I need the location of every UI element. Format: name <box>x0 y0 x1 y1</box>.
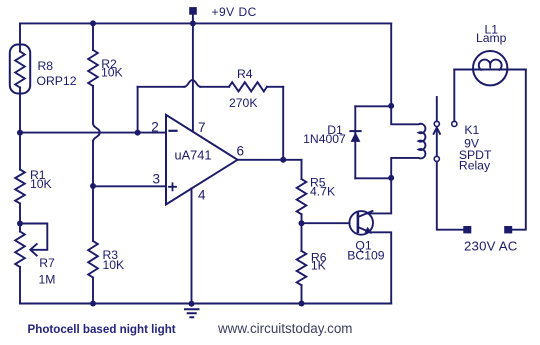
svg-text:Relay: Relay <box>459 158 491 172</box>
junction node 3 <box>17 130 23 136</box>
wire node to R1 <box>19 133 21 170</box>
wire Q1 collector <box>358 211 373 217</box>
svg-text:Photocell based night light: Photocell based night light <box>28 323 176 336</box>
svg-text:R7: R7 <box>39 256 55 270</box>
svg-text:Lamp: Lamp <box>476 31 507 45</box>
junction node 4 <box>135 130 141 136</box>
resistor R7 zigzag <box>15 232 25 268</box>
svg-text:10K: 10K <box>30 177 52 191</box>
op-amp minus sign <box>170 130 177 132</box>
resistor R5 zigzag <box>297 179 307 214</box>
wire diode branch top <box>355 105 391 107</box>
junction node 12 <box>388 103 394 109</box>
junction node 2 <box>190 20 196 26</box>
wire hop over pin2 wire <box>93 124 100 142</box>
ground symbol <box>185 309 199 317</box>
resistor R1 zigzag <box>15 170 25 204</box>
svg-text:BC109: BC109 <box>347 248 384 262</box>
svg-text:1N4007: 1N4007 <box>303 132 346 146</box>
op-amp plus sign <box>169 183 176 190</box>
resistor R4 zigzag <box>229 82 267 91</box>
wire NO contact up to lamp <box>453 70 455 122</box>
wire hop to R4 <box>200 86 229 88</box>
svg-text:3: 3 <box>152 172 160 187</box>
svg-text:4: 4 <box>198 188 206 203</box>
transistor Q1 base bar <box>357 214 360 232</box>
junction node 5 <box>90 183 96 189</box>
svg-text:4.7K: 4.7K <box>310 184 335 198</box>
wire lamp horizontal <box>454 69 526 71</box>
R7 wiper arrowhead <box>30 244 36 255</box>
lamp L1 circle <box>473 51 507 85</box>
diode D1 triangle <box>351 132 361 142</box>
svg-text:R8: R8 <box>38 59 54 73</box>
wire bottom ground rail <box>20 303 391 305</box>
wire R7 wiper tap <box>20 224 47 250</box>
wire R5 to base node <box>301 214 303 223</box>
junction node 8 <box>299 220 305 226</box>
wire rail into R8 top <box>19 23 21 51</box>
svg-text:230V AC: 230V AC <box>464 239 518 254</box>
wire Q1 collector lead <box>367 178 391 213</box>
wire feedback down to output node <box>282 87 284 160</box>
wire top +9V rail <box>20 22 391 24</box>
wire base node to Q1 <box>302 222 350 224</box>
switch contact circle bottom (common) <box>434 156 439 161</box>
wire rail down to relay top node <box>390 23 392 106</box>
svg-text:1M: 1M <box>39 272 56 286</box>
svg-text:10K: 10K <box>103 258 125 272</box>
wire switch NC stub <box>436 97 438 121</box>
wire op-amp pin 4 to ground <box>191 188 193 303</box>
diode D1 cathode bar <box>350 130 360 132</box>
terminal 230V AC right square <box>504 226 512 233</box>
transistor Q1 circle <box>349 211 373 235</box>
svg-text:+9V DC: +9V DC <box>212 5 257 19</box>
wire inverting input (pin 2) from divider <box>20 132 166 134</box>
wire lamp right down to AC <box>512 70 526 230</box>
wire base node to R6 <box>301 223 303 251</box>
junction node 10 <box>189 301 195 307</box>
svg-text:270K: 270K <box>229 96 257 110</box>
switch contact circle top <box>434 121 439 126</box>
svg-text:R4: R4 <box>237 67 253 81</box>
relay K1 coil <box>391 106 425 178</box>
svg-text:K1: K1 <box>464 123 479 137</box>
resistor R2 zigzag <box>88 50 98 86</box>
wire R3 to ground rail <box>92 278 94 304</box>
junction node 9 <box>90 301 96 307</box>
wire hop over +9V column <box>184 80 200 87</box>
wire hop to pin3 node <box>92 142 94 187</box>
svg-text:uA741: uA741 <box>175 148 212 163</box>
wire Q1 emitter <box>358 227 391 304</box>
wire diode branch bottom <box>355 177 391 179</box>
wire feedback from pin2 node up <box>137 87 139 133</box>
wire node to R3 <box>92 186 94 241</box>
wire R7 to ground rail <box>19 267 21 304</box>
junction node 6 <box>17 221 23 227</box>
switch NO contact circle <box>452 121 457 126</box>
wire R1 to R7 node <box>19 204 21 232</box>
Q1 emitter arrowhead <box>364 227 372 234</box>
node +9V square terminal <box>189 7 197 15</box>
wire rail to R2 <box>92 23 94 50</box>
junction node 13 <box>388 175 394 181</box>
wire R2 down to hop <box>92 86 94 124</box>
wire +9V column down to op-amp pin 7 <box>192 15 194 132</box>
switch arm arrowhead <box>434 128 440 134</box>
wire R8 bottom to node <box>19 88 21 133</box>
resistor R3 zigzag <box>88 241 98 278</box>
wire feedback top left segment <box>138 86 185 88</box>
junction node 1 <box>90 20 96 26</box>
wire output to R5 <box>301 160 303 179</box>
wire switch common down to AC <box>437 162 464 230</box>
svg-text:2: 2 <box>151 120 159 135</box>
svg-text:6: 6 <box>237 143 245 158</box>
switch arm with arrow <box>436 128 438 156</box>
junction node 7 <box>280 157 286 163</box>
wire non-inverting input (pin 3) <box>93 185 166 187</box>
wire R6 to ground rail <box>301 285 303 303</box>
wire diode branch left <box>354 106 356 178</box>
terminal 230V AC left square <box>463 226 471 233</box>
svg-text:www.circuitstoday.com: www.circuitstoday.com <box>217 321 352 336</box>
lamp filament <box>479 60 502 70</box>
svg-text:ORP12: ORP12 <box>37 74 77 88</box>
svg-text:7: 7 <box>198 120 206 135</box>
resistor R8 LDR body outline <box>10 45 30 94</box>
svg-text:10K: 10K <box>101 66 123 80</box>
resistor R8 zigzag <box>15 52 25 88</box>
wire op-amp output pin 6 <box>238 159 302 161</box>
resistor R6 zigzag <box>297 251 307 285</box>
op-amp U1 uA741 triangle <box>166 115 238 205</box>
junction node 11 <box>299 301 305 307</box>
wire R4 to corner <box>267 86 283 88</box>
svg-text:1K: 1K <box>311 259 326 273</box>
